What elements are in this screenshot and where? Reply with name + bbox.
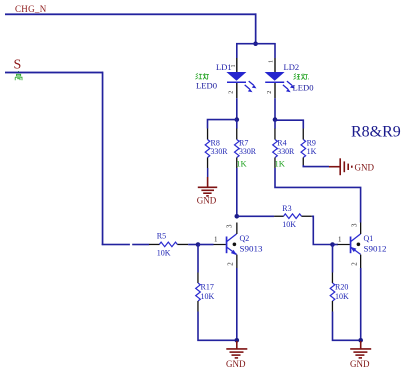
junction Q1 emitter ground node [358, 338, 363, 343]
svg-text:2: 2 [267, 91, 273, 94]
svg-text:S9013: S9013 [240, 244, 263, 253]
wire LD2 anode feed [274, 43, 276, 58]
pin LD1 anode (black) [236, 58, 237, 73]
pin Q1 emitter (black) [360, 255, 361, 269]
wire CHG_N horizontal [5, 13, 257, 15]
label green lamp (green CJK) LD2 [294, 74, 309, 80]
wire LD1 junction to R8 [208, 120, 237, 129]
wire R20 drop [332, 245, 334, 273]
resistor R8 [205, 129, 210, 169]
svg-text:10K: 10K [282, 220, 296, 229]
resistor R5 [149, 242, 188, 247]
pin LD1 cathode (black) [236, 83, 237, 98]
wire LED branch horizontal [236, 43, 276, 45]
resistor R17 [196, 273, 201, 312]
wire S to R5 (second segment after small gap) [132, 244, 149, 246]
svg-text:330R: 330R [277, 147, 295, 156]
wire LD2 cathode down [274, 98, 276, 120]
svg-text:R5: R5 [157, 232, 166, 241]
junction top LED feed [253, 41, 258, 46]
pin Q2 emitter (black) [236, 255, 237, 269]
svg-text:1K: 1K [236, 158, 247, 168]
svg-text:S: S [14, 57, 22, 72]
pin Q1 collector (black) [360, 223, 361, 235]
ground symbol sideways (right of R9) [329, 158, 352, 175]
svg-text:R8: R8 [211, 139, 220, 148]
transistor Q1 [338, 234, 361, 255]
wire base junction to Q2 [198, 244, 214, 246]
wire R5 to base junction [188, 244, 198, 246]
svg-text:LD2: LD2 [284, 62, 300, 72]
svg-text:GND: GND [197, 196, 217, 206]
svg-text:330R: 330R [239, 147, 257, 156]
wire R9 to sideways ground [303, 165, 329, 167]
resistor R7 [235, 129, 240, 169]
svg-text:LD1: LD1 [216, 62, 232, 72]
svg-text:2: 2 [226, 262, 234, 266]
wire R4 feed [274, 120, 276, 129]
junction Q1 base node [330, 242, 335, 247]
resistor R9 [301, 129, 306, 166]
svg-text:1: 1 [231, 65, 237, 68]
svg-text:1: 1 [214, 235, 218, 243]
svg-text:1: 1 [338, 235, 342, 243]
wire S vertical [102, 72, 104, 246]
svg-text:R3: R3 [282, 204, 291, 213]
junction collector node [235, 214, 240, 219]
ground symbol below Q1 [350, 341, 371, 358]
svg-text:R17: R17 [201, 282, 214, 291]
wire R8 to GND [207, 168, 209, 177]
label red lamp (green CJK) LD1 [195, 73, 209, 79]
pin Q2 collector (black) [236, 223, 237, 235]
svg-text:2: 2 [228, 91, 234, 94]
pin LD2 anode (black) [274, 58, 275, 73]
wire R17 to emitter node [198, 312, 237, 341]
svg-text:Q1: Q1 [364, 234, 374, 243]
junction below LD2 [273, 117, 278, 122]
svg-text:LED0: LED0 [293, 84, 314, 93]
svg-text:CHG_N: CHG_N [15, 4, 47, 14]
svg-text:2: 2 [350, 262, 358, 266]
svg-text:330R: 330R [211, 147, 229, 156]
wire collector node to R3 [237, 216, 274, 218]
svg-text:3: 3 [226, 224, 234, 228]
svg-text:R8&R9: R8&R9 [351, 124, 401, 141]
svg-text:Q2: Q2 [240, 234, 250, 243]
wire Q2 emitter down [236, 268, 238, 341]
ground symbol below R8 [198, 177, 217, 196]
svg-text:GND: GND [350, 359, 370, 369]
junction below LD1 [235, 117, 240, 122]
svg-text:R7: R7 [239, 139, 248, 148]
wire R7 feed [236, 120, 238, 129]
svg-text:1K: 1K [275, 158, 286, 168]
wire CHG_N vertical drop [255, 13, 257, 44]
ground symbol below Q2 [226, 341, 247, 358]
label high (green CJK) under S [15, 71, 22, 80]
svg-text:10K: 10K [335, 292, 349, 301]
wire R4 to Q1 collector [275, 168, 361, 223]
svg-text:GND: GND [226, 359, 246, 369]
LED LD2 [265, 72, 295, 92]
wire R17 drop [197, 245, 199, 273]
svg-text:1: 1 [269, 60, 275, 63]
svg-text:10K: 10K [157, 248, 171, 257]
svg-text:R4: R4 [277, 139, 286, 148]
pin LD2 cathode (black) [274, 83, 275, 98]
svg-text:R9: R9 [307, 139, 316, 148]
LED LD1 [226, 72, 256, 92]
wire R3 to Q1 base junction [312, 216, 333, 244]
wire R20 to Q1 emitter node [333, 312, 361, 341]
svg-text:R20: R20 [335, 282, 348, 291]
resistor R4 [273, 129, 278, 169]
svg-text:S9012: S9012 [364, 244, 387, 253]
wire R7 to collector node [236, 168, 238, 217]
svg-text:LED0: LED0 [196, 82, 217, 91]
junction Q2 emitter ground node [235, 338, 240, 343]
wire LD2 junction to R9 [275, 120, 303, 128]
svg-text:1K: 1K [307, 147, 317, 156]
svg-text:3: 3 [350, 223, 358, 227]
wire LD1 cathode down [236, 98, 238, 120]
wire base junction to Q1 [333, 244, 339, 246]
transistor Q2 [214, 234, 237, 255]
wire LD1 anode feed [236, 43, 238, 58]
resistor R3 [274, 214, 312, 219]
wire Q1 emitter down [360, 268, 362, 341]
junction Q2 base node [196, 242, 201, 247]
svg-text:GND: GND [355, 162, 375, 172]
svg-text:10K: 10K [201, 292, 215, 301]
wire S to R5 [102, 244, 130, 246]
wire S horizontal [5, 72, 103, 74]
resistor R20 [330, 273, 335, 312]
